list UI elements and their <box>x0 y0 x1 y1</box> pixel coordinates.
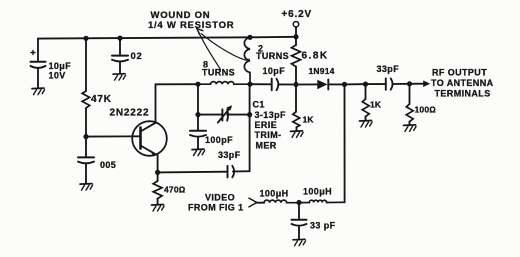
node junction trimmer right <box>247 112 252 117</box>
ground below 470 <box>152 205 165 212</box>
capacitor 33pF emitter row <box>218 150 241 177</box>
svg-text:FROM FIG 1: FROM FIG 1 <box>188 203 244 213</box>
capacitor .005 <box>78 157 116 183</box>
svg-text:6.8K: 6.8K <box>302 50 329 61</box>
svg-text:10μF: 10μF <box>49 61 72 71</box>
svg-text:TURNS: TURNS <box>256 51 289 61</box>
svg-text:TURNS: TURNS <box>202 68 235 78</box>
node junction rail-6.8K <box>293 34 298 39</box>
svg-text:02: 02 <box>131 51 143 62</box>
wire base lead <box>86 135 141 137</box>
wire 47K to base node <box>85 108 87 137</box>
node junction 6.8K bottom <box>293 82 298 87</box>
capacitor 10pF <box>263 66 286 90</box>
wire emitter lead <box>157 155 159 172</box>
svg-text:TERMINALS: TERMINALS <box>435 88 491 98</box>
wire rail to C-electrolytic <box>37 39 39 61</box>
wire top supply rail <box>38 37 296 39</box>
svg-text:100Ω: 100Ω <box>415 105 437 115</box>
wire trimmer row left <box>197 84 199 130</box>
node junction rail-2turns <box>247 35 252 40</box>
wire junction to 1K node <box>345 83 366 85</box>
wire output arrow <box>410 83 424 85</box>
svg-text:33 pF: 33 pF <box>310 221 336 231</box>
node base junction <box>83 134 88 139</box>
wire rail to .02 cap <box>119 38 121 55</box>
node junction bottom <box>296 200 301 205</box>
node junction rail-47K <box>83 36 88 41</box>
node junction trimmer left <box>195 112 200 117</box>
ground below 100pF <box>192 149 205 156</box>
wire diode to junction <box>328 83 344 85</box>
input chevron <box>249 198 257 207</box>
node emitter junction <box>155 170 160 175</box>
inductor L2 2 turns vertical <box>244 37 289 84</box>
ground below 10uF <box>32 88 45 95</box>
inductor L3 100uH <box>260 189 300 203</box>
svg-text:3-13pF: 3-13pF <box>255 110 287 120</box>
resistor 6.8K <box>292 37 329 85</box>
capacitor 33pF bottom <box>292 203 336 239</box>
svg-text:+6.2V: +6.2V <box>282 9 312 20</box>
ground below bottom 33pF <box>293 239 306 246</box>
capacitor 100pF <box>190 131 233 149</box>
wire 2turns node to 10pF <box>250 83 272 85</box>
leader arrowhead <box>197 29 203 35</box>
ground below shunt 1K <box>360 121 373 128</box>
resistor 100 ohm <box>406 84 436 125</box>
svg-text:47K: 47K <box>91 94 112 105</box>
ground below .02 <box>113 74 126 81</box>
inductor L1 8 turns <box>198 60 250 85</box>
resistor 1K (shunt) <box>362 84 382 120</box>
ground below .005 <box>80 184 93 191</box>
svg-text:TRIM-: TRIM- <box>255 130 282 140</box>
wire collector riser <box>155 84 157 123</box>
resistor 47K <box>82 91 112 108</box>
resistor 470 ohm <box>153 172 186 204</box>
node junction rail-.02 <box>117 36 122 41</box>
ground below 100 ohm <box>404 125 417 131</box>
capacitor C1 trimmer 3-13pF <box>218 105 250 122</box>
svg-text:1K: 1K <box>303 115 315 125</box>
svg-text:1N914: 1N914 <box>309 66 335 76</box>
svg-text:33pF: 33pF <box>218 150 241 160</box>
svg-text:470Ω: 470Ω <box>164 184 186 194</box>
node junction 1K-2 <box>363 82 368 87</box>
node junction coil row left <box>195 82 200 87</box>
wire rail to 47K <box>85 38 87 91</box>
diode D1 1N914 <box>309 66 335 89</box>
wire 10pF to 6.8K node <box>279 83 297 85</box>
svg-text:100μH: 100μH <box>303 187 332 197</box>
capacitor 33pF output <box>377 64 400 90</box>
wire mid vertical x=249.6 from coil node down <box>233 84 250 171</box>
capacitor .02 <box>112 51 143 73</box>
wire 1K node to 33pF out <box>366 83 386 85</box>
resistor 1K (under 6.8K node) <box>293 85 315 131</box>
transistor Q1 2N2222 <box>110 108 167 156</box>
svg-text:10pF: 10pF <box>263 66 286 76</box>
svg-text:005: 005 <box>100 160 116 170</box>
svg-text:10V: 10V <box>49 70 66 80</box>
svg-text:33pF: 33pF <box>377 64 400 74</box>
svg-text:2N2222: 2N2222 <box>110 108 150 119</box>
wire 6.8K node to diode <box>296 83 317 85</box>
svg-text:C1: C1 <box>253 99 265 109</box>
leader line to 2 turns <box>201 34 249 61</box>
wire base node to .005 <box>85 137 87 157</box>
wire input to L3 <box>257 202 264 204</box>
svg-text:TO ANTENNA: TO ANTENNA <box>431 78 494 88</box>
svg-text:ERIE: ERIE <box>255 120 278 130</box>
node +6.2V terminal <box>293 22 298 27</box>
node junction after diode <box>342 82 347 87</box>
svg-text:1K: 1K <box>370 100 382 110</box>
svg-text:RF OUTPUT: RF OUTPUT <box>432 67 487 77</box>
wire +6.2V to rail <box>295 27 297 37</box>
wire 33pF to output node <box>393 83 410 85</box>
node output junction <box>407 81 412 86</box>
svg-text:1/4 W RESISTOR: 1/4 W RESISTOR <box>148 20 234 31</box>
leader line to 8 turns <box>199 32 221 70</box>
capacitor 10uF electrolytic <box>31 51 72 88</box>
wire coil row: collector node to 8-turns <box>156 83 199 85</box>
wire L4 to right riser <box>344 84 346 202</box>
svg-text:100pF: 100pF <box>205 135 233 145</box>
svg-text:VIDEO: VIDEO <box>205 193 235 203</box>
wire emitter row to 33pF <box>158 171 228 174</box>
node junction 2turns bottom <box>247 82 252 87</box>
ground below 1K <box>291 131 304 138</box>
svg-text:MER: MER <box>256 140 277 150</box>
svg-text:100μH: 100μH <box>260 189 289 199</box>
inductor L4 100uH <box>299 187 345 203</box>
